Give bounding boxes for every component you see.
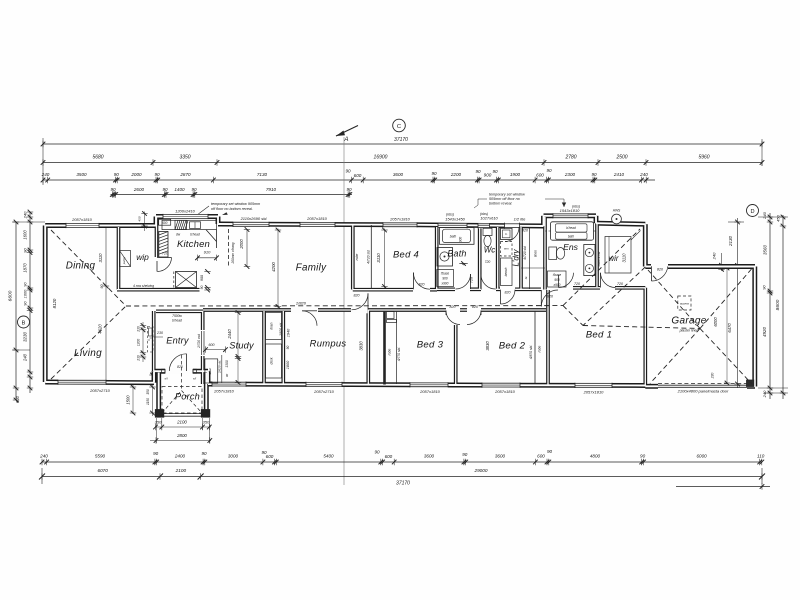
door: bed2 820 (467, 311, 481, 325)
svg-text:plaster lined: plaster lined (679, 329, 700, 333)
svg-text:x900: x900 (441, 282, 449, 286)
window 2057x1810 (family, top) (300, 222, 335, 227)
porch roof dashed outline (162, 387, 202, 414)
svg-text:b'head: b'head (566, 226, 576, 230)
svg-text:2100: 2100 (176, 420, 187, 425)
svg-text:(obs): (obs) (446, 213, 454, 217)
svg-text:900: 900 (442, 277, 448, 281)
door: rumpus 820 (352, 307, 368, 314)
garage bottom-right pier (747, 380, 754, 387)
grid bubble C (393, 119, 406, 132)
svg-text:2410: 2410 (613, 172, 625, 177)
svg-text:720: 720 (617, 282, 623, 286)
study dims (237, 312, 239, 384)
door: garage 820 (651, 263, 668, 269)
svg-text:B: B (22, 320, 26, 326)
svg-text:bottom reveal.: bottom reveal. (489, 202, 512, 206)
svg-text:720: 720 (574, 282, 580, 286)
svg-text:820: 820 (547, 294, 553, 298)
svg-text:29000: 29000 (473, 468, 487, 473)
svg-text:450: 450 (776, 214, 781, 221)
svg-text:2440: 2440 (227, 329, 232, 340)
svg-text:37170: 37170 (396, 481, 410, 487)
svg-text:robe: robe (388, 349, 392, 356)
svg-text:90: 90 (153, 451, 159, 456)
svg-text:HWS: HWS (613, 209, 621, 213)
window 2057x1810 (study, bottom) (212, 382, 246, 387)
svg-text:110: 110 (757, 454, 765, 459)
svg-text:2/820: 2/820 (295, 301, 307, 306)
svg-text:towel & rail: towel & rail (597, 251, 601, 266)
svg-text:2300: 2300 (564, 172, 576, 177)
svg-text:2/620 sld.: 2/620 sld. (217, 360, 221, 374)
svg-text:Garage: Garage (671, 316, 706, 327)
svg-text:2/720 csd: 2/720 csd (197, 334, 201, 349)
svg-text:7910: 7910 (266, 187, 277, 192)
svg-text:900: 900 (459, 237, 463, 243)
svg-text:x900: x900 (553, 283, 561, 287)
svg-text:b'head: b'head (172, 319, 182, 323)
svg-text:6000: 6000 (696, 454, 707, 459)
dimension row 2 (5680/3350/16900/2780/2500/5960) (43, 162, 762, 164)
svg-text:90: 90 (114, 172, 120, 177)
svg-text:5590: 5590 (95, 454, 106, 459)
svg-text:6470: 6470 (727, 323, 732, 333)
svg-text:3500: 3500 (76, 172, 87, 177)
interior dim line 3110/90/4620 at x=106 (105, 228, 107, 383)
roof hip living (51, 306, 126, 379)
svg-text:2057x1810: 2057x1810 (583, 390, 605, 395)
svg-text:Bath: Bath (447, 249, 466, 259)
svg-text:8120: 8120 (52, 298, 57, 308)
svg-text:600: 600 (266, 454, 274, 459)
svg-text:4/870 sld.: 4/870 sld. (529, 345, 533, 359)
svg-text:820: 820 (505, 291, 511, 295)
right dim chain 2130/240 (garage setback) (737, 218, 739, 388)
svg-text:1600: 1600 (23, 230, 28, 240)
linen closet (hall) (529, 227, 531, 289)
svg-text:600: 600 (162, 221, 168, 225)
wir robe shelving (605, 237, 631, 274)
ens tbase label (548, 271, 567, 287)
window 2057x1810 (bed3, bottom) (410, 382, 448, 387)
svg-text:3830: 3830 (485, 341, 490, 351)
svg-text:90: 90 (475, 169, 481, 174)
svg-text:90: 90 (110, 187, 116, 192)
window (obs)1543x1450 (bath, top) (438, 223, 467, 228)
svg-text:4800: 4800 (590, 454, 601, 459)
svg-text:s/l: s/l (165, 377, 169, 381)
svg-text:90: 90 (462, 452, 468, 457)
svg-text:5960: 5960 (698, 154, 709, 160)
garage access panel (678, 296, 691, 310)
svg-text:90: 90 (492, 169, 498, 174)
roof hip bed1 (563, 306, 583, 326)
svg-text:90: 90 (201, 451, 207, 456)
svg-text:Bed 3: Bed 3 (417, 340, 444, 351)
svg-text:bath: bath (450, 234, 457, 238)
svg-text:240: 240 (762, 390, 767, 398)
svg-text:1500: 1500 (126, 395, 131, 405)
svg-text:1000: 1000 (23, 289, 28, 298)
svg-text:820: 820 (419, 282, 425, 286)
door: wip->kitchen 720 (157, 257, 172, 259)
svg-text:2100x4800 panelmasta door: 2100x4800 panelmasta door (677, 389, 729, 394)
svg-text:1543x1450: 1543x1450 (445, 216, 466, 221)
entry niche + dims (148, 327, 154, 339)
svg-text:2057x1810: 2057x1810 (389, 217, 411, 222)
svg-text:450: 450 (138, 216, 142, 221)
svg-text:600: 600 (354, 173, 362, 178)
bed2 robe strip (534, 311, 536, 384)
svg-text:350: 350 (203, 420, 210, 425)
svg-text:Bed 4: Bed 4 (393, 249, 419, 260)
svg-text:6000: 6000 (713, 317, 718, 327)
svg-text:temporary set window: temporary set window (489, 193, 525, 197)
svg-text:access: access (680, 302, 690, 306)
svg-text:2057x1810: 2057x1810 (213, 389, 235, 394)
svg-text:Family: Family (296, 263, 327, 274)
svg-text:2780: 2780 (564, 154, 576, 160)
svg-text:90: 90 (162, 187, 168, 192)
svg-text:720: 720 (485, 260, 491, 264)
svg-text:505mm off floor no: 505mm off floor no (489, 197, 520, 201)
svg-text:350: 350 (146, 389, 150, 395)
svg-text:Kitchen: Kitchen (177, 239, 210, 250)
right outer dim chain 450/8600 (782, 215, 784, 399)
svg-text:600: 600 (209, 343, 215, 347)
exterior walls (45, 223, 156, 228)
svg-text:2400: 2400 (174, 454, 186, 459)
study linen closet (205, 359, 218, 383)
svg-text:3600: 3600 (393, 172, 404, 177)
svg-text:820: 820 (354, 293, 360, 297)
grid bubble B (18, 316, 30, 328)
dim 4200 (family) (277, 229, 279, 309)
svg-text:200mm o'hang: 200mm o'hang (231, 242, 235, 264)
roof hip garage corner to ridge (583, 267, 645, 326)
svg-text:90: 90 (547, 449, 553, 454)
svg-text:2000: 2000 (130, 172, 142, 177)
svg-text:Dining: Dining (66, 261, 96, 272)
door: bed3 820 (446, 311, 460, 325)
svg-text:2057x2710: 2057x2710 (89, 388, 111, 393)
svg-text:820: 820 (657, 268, 663, 272)
svg-text:350: 350 (155, 420, 162, 425)
svg-text:2500: 2500 (615, 154, 627, 160)
svg-text:1940: 1940 (287, 328, 291, 337)
svg-text:600: 600 (537, 454, 545, 459)
svg-text:wir: wir (609, 254, 619, 263)
svg-text:1300: 1300 (225, 360, 229, 368)
svg-text:230: 230 (711, 373, 715, 380)
porch bottom dims 350/2100/350 + 2800 (155, 426, 211, 428)
svg-text:90: 90 (225, 374, 229, 378)
svg-text:16900: 16900 (374, 154, 388, 160)
svg-text:90: 90 (200, 286, 204, 290)
svg-text:2200: 2200 (450, 172, 462, 177)
svg-text:820: 820 (522, 229, 528, 233)
ldry external door (top) (505, 223, 520, 229)
study linen + desk closet (266, 313, 282, 340)
window 2057x2710 (rumpus, bottom) (306, 382, 342, 387)
ldry washing machine (dashed) (501, 242, 513, 257)
svg-text:2057x1810: 2057x1810 (419, 389, 441, 394)
svg-text:7130: 7130 (257, 172, 268, 177)
svg-text:Ens: Ens (563, 242, 579, 252)
svg-text:3600: 3600 (424, 454, 435, 459)
svg-text:90: 90 (23, 248, 28, 253)
svg-text:4620: 4620 (98, 324, 103, 334)
svg-text:4/720 sld: 4/720 sld (367, 250, 371, 264)
svg-text:3110: 3110 (376, 253, 381, 263)
svg-text:2057x1810: 2057x1810 (71, 217, 93, 222)
svg-text:2110x2690 sld.: 2110x2690 sld. (240, 216, 268, 221)
svg-text:dw: dw (176, 232, 181, 236)
svg-text:linen: linen (534, 250, 538, 257)
svg-text:240: 240 (712, 252, 717, 260)
svg-text:600: 600 (385, 454, 393, 459)
svg-text:90: 90 (346, 187, 352, 192)
svg-text:2000: 2000 (239, 239, 244, 250)
garage panel door 2100x4800 (658, 384, 747, 386)
svg-text:7500w: 7500w (172, 314, 182, 318)
svg-text:2057x1810: 2057x1810 (494, 389, 516, 394)
svg-text:2057x2710: 2057x2710 (313, 389, 335, 394)
svg-text:2/820 sld.: 2/820 sld. (279, 322, 283, 337)
svg-text:Porch: Porch (175, 392, 200, 402)
svg-text:off floor no bottom reveal.: off floor no bottom reveal. (211, 207, 253, 211)
window 2110x2690 sld (family, top) (233, 222, 269, 227)
svg-text:t'base: t'base (553, 273, 562, 277)
svg-text:1900: 1900 (510, 172, 521, 177)
roof hip dining (51, 230, 126, 306)
svg-text:Wc: Wc (484, 246, 496, 255)
svg-text:1870: 1870 (23, 263, 28, 273)
bath basin (437, 248, 453, 267)
left inner dim chain 240/1600/90/1870/90 1000 90/3230/240 (29, 212, 31, 393)
svg-text:bench: bench (504, 267, 508, 276)
svg-text:90: 90 (345, 169, 351, 174)
ldry bench (501, 258, 513, 286)
window 2057x2710 (living, bottom) (58, 380, 106, 385)
svg-text:temporary set window 905mm: temporary set window 905mm (211, 202, 260, 206)
svg-text:1200: 1200 (137, 339, 141, 347)
svg-text:robe: robe (538, 346, 542, 353)
svg-text:br.: br. (524, 276, 528, 280)
svg-text:2130: 2130 (728, 235, 733, 247)
svg-text:5680: 5680 (92, 154, 103, 160)
garage hips (648, 270, 700, 329)
svg-text:3110: 3110 (98, 253, 103, 263)
svg-text:900: 900 (200, 275, 204, 281)
svg-text:2870: 2870 (179, 172, 191, 177)
svg-text:240: 240 (23, 211, 28, 219)
wip corner shelf (120, 251, 131, 267)
study door labels (201, 331, 205, 355)
svg-text:90: 90 (374, 450, 380, 455)
svg-text:4/720 sld: 4/720 sld (523, 246, 527, 260)
kitchen bench (162, 220, 217, 229)
grid bubble D (747, 205, 759, 217)
window (obs)1543x1810 (ens, top) (553, 213, 588, 218)
svg-text:240: 240 (41, 172, 50, 177)
svg-text:linen: linen (208, 367, 212, 374)
svg-text:Study: Study (229, 341, 255, 351)
svg-text:L'dry: L'dry (512, 248, 521, 266)
bed4 robe (370, 225, 372, 289)
front door entry 820 + sidelights (165, 368, 193, 374)
svg-text:C: C (397, 124, 401, 130)
svg-text:Bed 1: Bed 1 (586, 330, 613, 341)
svg-text:240: 240 (39, 454, 48, 459)
window 2057x1810 (bed4, top) (383, 222, 417, 227)
bath tbase label (437, 270, 454, 287)
svg-text:(obs): (obs) (480, 212, 488, 216)
svg-text:3830: 3830 (359, 341, 364, 351)
svg-text:1543x1810: 1543x1810 (560, 208, 581, 213)
svg-text:900: 900 (484, 173, 492, 178)
svg-text:1150: 1150 (146, 398, 150, 405)
svg-text:3560: 3560 (763, 244, 768, 255)
svg-text:1027x610: 1027x610 (480, 216, 498, 221)
svg-text:8600: 8600 (775, 299, 781, 310)
svg-text:90: 90 (286, 346, 290, 350)
svg-text:bath: bath (568, 235, 574, 239)
svg-text:3000: 3000 (228, 454, 239, 459)
dimension row 37170 overall (top) (43, 143, 762, 145)
svg-text:pantry: pantry (122, 256, 126, 265)
bottom dim row 2 (6070/2100/29000) (42, 476, 762, 478)
door: ens 720 (559, 273, 574, 288)
left outer dim chain 6600/600 (15, 222, 17, 400)
svg-text:720: 720 (470, 277, 474, 283)
svg-text:linen: linen (270, 322, 274, 329)
ldry trough (501, 228, 513, 239)
svg-text:600: 600 (536, 173, 544, 178)
garage interior dim lines 6000/6470 (726, 267, 728, 385)
svg-text:90: 90 (591, 172, 597, 177)
svg-text:820: 820 (177, 365, 183, 369)
door: bath 720 (456, 274, 471, 289)
ceiling ridge line (corridor) (126, 305, 563, 307)
svg-text:4 row shelving: 4 row shelving (133, 284, 154, 288)
bath tub (440, 228, 475, 245)
door: bed4 820 (413, 273, 430, 290)
svg-text:90: 90 (640, 454, 646, 459)
svg-text:(obs): (obs) (572, 204, 580, 208)
svg-text:1200x2410: 1200x2410 (175, 208, 196, 213)
bottom dim row 1 (chain) (42, 461, 762, 463)
svg-text:wip: wip (136, 252, 149, 262)
svg-text:2100: 2100 (175, 468, 187, 473)
window (obs)1027x610 (wc, top) (478, 223, 490, 228)
door: bed1 820 (541, 290, 558, 307)
svg-text:wm: wm (504, 247, 509, 251)
roof hip wir (563, 229, 640, 306)
ens vanity (584, 245, 595, 276)
porch piers (155, 410, 164, 418)
door: wc 720 (481, 275, 496, 290)
svg-text:2600: 2600 (133, 187, 145, 192)
svg-text:3350: 3350 (179, 154, 190, 160)
interior walls (117, 227, 121, 290)
svg-text:Rumpus: Rumpus (310, 338, 347, 349)
svg-text:600: 600 (15, 395, 20, 403)
svg-text:230: 230 (156, 331, 163, 335)
svg-text:Entry: Entry (166, 336, 190, 346)
window 2057x1810 (dining, top) (66, 223, 99, 228)
svg-text:2057x1810: 2057x1810 (306, 216, 328, 221)
kitchen fridge (hatched) (159, 232, 168, 258)
svg-text:D: D (750, 209, 754, 215)
svg-text:robe: robe (355, 254, 359, 261)
svg-text:90: 90 (154, 172, 160, 177)
right outer dim chain 240/3560/90/4920/240 (769, 213, 771, 399)
svg-text:230: 230 (137, 355, 141, 362)
svg-text:t'base: t'base (441, 272, 450, 276)
ens toilet (549, 247, 557, 260)
window 1200x2410 (kitchen, top) (163, 214, 208, 219)
svg-text:Living: Living (74, 348, 102, 359)
kitchen bench angled end (206, 230, 217, 242)
svg-text:3600: 3600 (495, 454, 506, 459)
section line A-A (343, 137, 345, 485)
svg-text:desk: desk (270, 357, 274, 364)
door: ldry 820 (501, 290, 516, 304)
svg-text:240: 240 (762, 211, 767, 219)
svg-text:1/2 lite: 1/2 lite (514, 216, 527, 221)
svg-text:37170: 37170 (394, 137, 408, 143)
svg-text:90: 90 (431, 171, 437, 176)
bed3 robe strip (383, 311, 386, 385)
svg-text:2800: 2800 (176, 433, 187, 438)
svg-text:4200: 4200 (271, 262, 276, 272)
svg-text:3110: 3110 (622, 253, 627, 263)
dimension row 4 (90/2600/90/1400/90/7910/90) (111, 194, 353, 196)
svg-text:Bed 2: Bed 2 (499, 341, 526, 352)
svg-text:6600: 6600 (8, 290, 14, 301)
window 2057x1810 (bed2, bottom) (482, 383, 520, 388)
svg-text:1400: 1400 (174, 187, 185, 192)
ens bath (551, 222, 594, 240)
svg-text:6070: 6070 (97, 468, 108, 473)
svg-text:910: 910 (204, 250, 211, 255)
wc toilet (483, 228, 492, 235)
svg-text:s/l: s/l (193, 377, 197, 381)
svg-text:4920: 4920 (762, 326, 767, 337)
kitchen overhang dashed + dims (228, 229, 230, 267)
svg-text:90: 90 (100, 285, 104, 289)
svg-text:230: 230 (137, 326, 141, 333)
hws unit (612, 214, 622, 224)
svg-text:tr.: tr. (505, 232, 508, 236)
svg-text:5400: 5400 (323, 454, 334, 459)
kitchen sink (190, 222, 201, 229)
svg-text:3230: 3230 (23, 331, 28, 342)
section marker A (top) (336, 126, 358, 137)
svg-text:4/770 sld.: 4/770 sld. (397, 347, 401, 361)
window 2057x1810 (bed1, bottom) (575, 383, 612, 388)
kitchen island bench (176, 272, 197, 288)
ridge bed1-garage (583, 326, 700, 329)
svg-text:1800: 1800 (286, 360, 290, 369)
svg-text:90: 90 (191, 187, 197, 192)
door: family hall 2/820 (291, 307, 318, 314)
door: wir 720 (601, 273, 616, 288)
svg-text:90: 90 (546, 168, 552, 173)
kitchen cooktop (hatched) (175, 220, 187, 229)
